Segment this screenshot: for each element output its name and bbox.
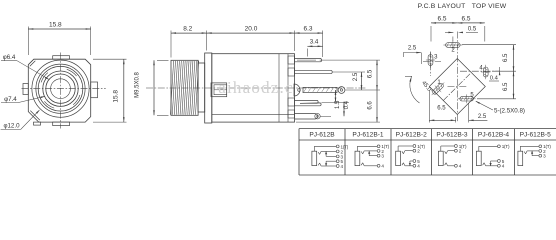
svg-text:15.8: 15.8 — [49, 21, 62, 28]
svg-text:6.5: 6.5 — [437, 15, 446, 22]
svg-text:3.4: 3.4 — [310, 39, 319, 46]
svg-text:0.4: 0.4 — [344, 100, 350, 109]
svg-text:15.8: 15.8 — [113, 90, 120, 103]
svg-text:PJ-612B: PJ-612B — [309, 132, 335, 139]
svg-text:2.5: 2.5 — [478, 114, 487, 120]
svg-text:6.5: 6.5 — [461, 15, 470, 22]
svg-text:φ6.4: φ6.4 — [3, 54, 16, 61]
svg-text:0.5: 0.5 — [468, 26, 477, 32]
svg-text:2.5: 2.5 — [353, 72, 359, 81]
svg-text:5-(2.5X0.8): 5-(2.5X0.8) — [494, 108, 525, 115]
svg-text:PJ-612B-3: PJ-612B-3 — [436, 132, 467, 139]
svg-text:aihaodz.c: aihaodz.c — [218, 78, 293, 97]
svg-text:φ7.4: φ7.4 — [4, 96, 17, 103]
svg-text:PJ-612B-2: PJ-612B-2 — [396, 132, 427, 139]
svg-text:1(T): 1(T) — [502, 144, 510, 149]
svg-text:PJ-612B-4: PJ-612B-4 — [478, 132, 509, 139]
svg-text:20.0: 20.0 — [245, 26, 258, 33]
svg-text:6.5: 6.5 — [503, 53, 509, 62]
svg-text:6.5: 6.5 — [368, 69, 374, 78]
svg-text:6.6: 6.6 — [368, 101, 374, 110]
svg-text:2.5: 2.5 — [408, 46, 417, 52]
svg-text:0.4: 0.4 — [490, 76, 499, 82]
svg-text:PJ-612B-5: PJ-612B-5 — [520, 132, 551, 139]
svg-text:PJ-612B-1: PJ-612B-1 — [352, 132, 383, 139]
svg-text:6.5: 6.5 — [503, 82, 509, 91]
svg-text:8.2: 8.2 — [183, 26, 192, 33]
svg-text:6.5: 6.5 — [437, 105, 446, 111]
svg-text:6.3: 6.3 — [303, 26, 312, 33]
svg-text:φ12.0: φ12.0 — [3, 123, 20, 130]
svg-text:P.C.B LAYOUT TOP VIEW: P.C.B LAYOUT TOP VIEW — [418, 3, 507, 10]
svg-text:M9.5X0.8: M9.5X0.8 — [135, 71, 141, 97]
svg-text:1.5: 1.5 — [335, 100, 341, 109]
